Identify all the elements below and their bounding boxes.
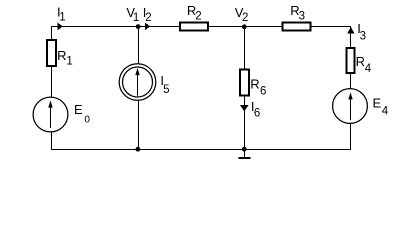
svg-text:3: 3 xyxy=(299,11,305,23)
resistor R6 xyxy=(240,70,249,96)
svg-text:1: 1 xyxy=(66,56,72,68)
wire V1 branch upper xyxy=(138,26,140,64)
svg-text:E: E xyxy=(373,95,382,110)
label I2 xyxy=(143,5,152,24)
junction dot bottom V2 branch (ground node) xyxy=(242,147,247,152)
wire right vertical R4-to-E4 xyxy=(350,74,352,89)
svg-text:R: R xyxy=(356,54,365,69)
label I6 xyxy=(251,99,260,120)
label R4 xyxy=(356,54,372,75)
svg-text:R: R xyxy=(250,76,259,91)
svg-text:0: 0 xyxy=(84,114,90,125)
node V1 junction dot xyxy=(136,24,141,29)
voltage source E4 xyxy=(333,89,368,124)
svg-text:5: 5 xyxy=(163,84,169,96)
label V1 xyxy=(126,5,139,24)
svg-text:3: 3 xyxy=(360,31,366,43)
resistor R2 xyxy=(180,23,208,31)
resistor R3 xyxy=(283,23,311,31)
svg-text:1: 1 xyxy=(133,12,139,24)
voltage source E0 xyxy=(33,97,68,132)
current arrow I1 xyxy=(57,22,62,30)
label R3 xyxy=(290,3,305,23)
ground xyxy=(239,150,251,159)
wire left vertical E0-to-bottom xyxy=(51,132,53,151)
svg-text:4: 4 xyxy=(382,105,389,117)
svg-text:2: 2 xyxy=(195,11,201,23)
current source I5 xyxy=(119,64,156,101)
node V2 junction dot xyxy=(242,24,247,29)
svg-text:1: 1 xyxy=(59,12,65,24)
current arrow I3 xyxy=(347,27,354,33)
label R6 xyxy=(250,76,266,97)
resistor R1 xyxy=(47,40,56,66)
label E0 xyxy=(74,102,90,125)
svg-text:6: 6 xyxy=(254,108,260,120)
wire right vertical E4-to-bottom xyxy=(350,124,352,151)
svg-text:R: R xyxy=(57,48,66,63)
label R1 xyxy=(57,48,73,67)
label I5 xyxy=(160,73,169,96)
current arrow I2 xyxy=(145,22,150,30)
wire V2 branch upper xyxy=(244,26,246,69)
wire V2 branch lower xyxy=(244,96,246,150)
resistor R4 xyxy=(347,48,355,73)
wire left vertical R1-to-E0 xyxy=(51,66,53,98)
label I3 xyxy=(357,21,366,43)
wire bottom rail xyxy=(51,149,351,151)
label R2 xyxy=(187,3,202,23)
svg-text:6: 6 xyxy=(260,85,266,97)
svg-text:4: 4 xyxy=(365,63,372,75)
label V2 xyxy=(235,5,249,24)
wire left vertical upper xyxy=(51,26,53,40)
wire V1 branch lower xyxy=(138,100,140,150)
current arrow I6 xyxy=(240,105,249,111)
wire top rail xyxy=(51,26,351,28)
junction dot bottom V1 branch xyxy=(136,147,141,152)
svg-text:E: E xyxy=(74,102,83,117)
label I1 xyxy=(57,4,66,23)
svg-text:2: 2 xyxy=(242,12,248,24)
svg-text:2: 2 xyxy=(145,12,151,24)
wire right vertical upper xyxy=(350,26,352,48)
label E4 xyxy=(373,95,389,117)
